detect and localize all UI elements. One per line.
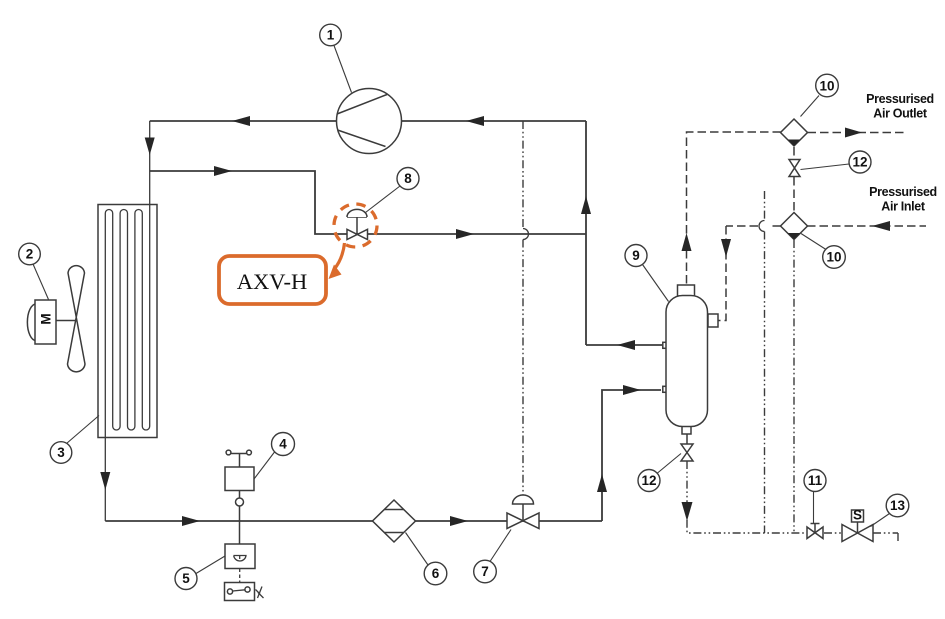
- svg-text:3: 3: [57, 445, 65, 460]
- svg-text:9: 9: [632, 248, 640, 263]
- svg-text:1: 1: [327, 28, 335, 43]
- svg-text:Air Inlet: Air Inlet: [881, 200, 926, 214]
- svg-text:10: 10: [819, 78, 834, 93]
- svg-text:M: M: [38, 313, 53, 324]
- svg-text:Air Outlet: Air Outlet: [873, 107, 928, 121]
- svg-text:12: 12: [641, 473, 656, 488]
- svg-text:10: 10: [826, 250, 841, 265]
- svg-text:4: 4: [279, 437, 287, 452]
- svg-text:Pressurised: Pressurised: [866, 92, 934, 106]
- svg-text:5: 5: [182, 571, 190, 586]
- svg-text:12: 12: [852, 155, 867, 170]
- svg-text:AXV-H: AXV-H: [237, 269, 307, 294]
- svg-text:Pressurised: Pressurised: [869, 185, 937, 199]
- svg-text:7: 7: [481, 564, 489, 579]
- svg-text:11: 11: [808, 473, 823, 488]
- svg-text:8: 8: [404, 171, 412, 186]
- svg-text:6: 6: [432, 566, 440, 581]
- svg-text:2: 2: [26, 247, 34, 262]
- svg-text:S: S: [853, 508, 862, 523]
- svg-text:13: 13: [890, 498, 906, 513]
